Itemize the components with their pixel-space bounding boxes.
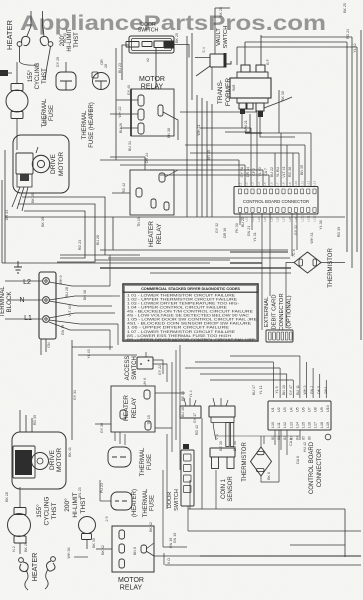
svg-text:U8: U8: [314, 407, 318, 412]
svg-text:BR 35: BR 35: [207, 150, 211, 160]
svg-text:OR 24: OR 24: [145, 153, 149, 163]
svg-text:THERMISTOR: THERMISTOR: [242, 442, 248, 482]
svg-text:CONNECTOR: CONNECTOR: [279, 293, 285, 330]
svg-text:HEATER: HEATER: [30, 553, 39, 582]
svg-text:CYCLING: CYCLING: [35, 62, 41, 89]
svg-text:B4: B4: [295, 436, 299, 440]
svg-text:#2: #2: [146, 58, 150, 62]
svg-text:BLOCK: BLOCK: [6, 291, 13, 313]
svg-text:GN 19: GN 19: [169, 538, 173, 548]
svg-text:YL 31: YL 31: [253, 232, 257, 241]
svg-text:L1: L1: [24, 315, 32, 322]
svg-text:RD 23: RD 23: [78, 240, 82, 250]
svg-text:BK 30: BK 30: [281, 91, 285, 101]
svg-text:U2: U2: [277, 407, 281, 412]
svg-text:L1: L1: [238, 182, 242, 186]
svg-text:SWITCH: SWITCH: [223, 26, 229, 49]
svg-text:B1: B1: [277, 436, 281, 440]
svg-text:BU 26: BU 26: [119, 123, 123, 133]
svg-text:MOTOR: MOTOR: [118, 577, 144, 584]
svg-text:BU 23: BU 23: [118, 63, 122, 73]
svg-text:BU 11: BU 11: [296, 385, 300, 395]
svg-text:L4: L4: [257, 182, 261, 186]
svg-text:HEATER: HEATER: [123, 395, 130, 421]
svg-text:L212: L212: [313, 215, 317, 222]
svg-text:BK 25: BK 25: [343, 3, 347, 13]
svg-text:CA 7: CA 7: [264, 168, 268, 176]
svg-text:YL BU: YL BU: [276, 166, 280, 177]
svg-text:YL 4: YL 4: [189, 390, 193, 397]
svg-text:7C X: 7C X: [292, 248, 296, 257]
svg-text:(HEATER): (HEATER): [132, 489, 138, 517]
svg-text:JRL 23: JRL 23: [78, 487, 82, 498]
svg-text:3W8: 3W8: [232, 85, 236, 92]
svg-text:U4: U4: [289, 407, 293, 412]
svg-text:L12: L12: [307, 180, 311, 185]
svg-text:YL 11: YL 11: [259, 386, 263, 395]
svg-text:TN 15: TN 15: [137, 217, 141, 227]
svg-text:YL 5: YL 5: [275, 386, 279, 393]
svg-text:YL 40: YL 40: [258, 167, 262, 176]
svg-text:GN 2: GN 2: [310, 386, 314, 394]
svg-text:L11: L11: [277, 422, 281, 428]
svg-text:GY 30: GY 30: [100, 423, 104, 433]
svg-text:L3: L3: [251, 182, 255, 186]
svg-text:CA 6: CA 6: [289, 438, 293, 446]
svg-text:FORMER: FORMER: [225, 78, 232, 106]
svg-text:THST: THST: [51, 502, 58, 519]
svg-text:L2: L2: [245, 182, 249, 186]
svg-text:DRIVE: DRIVE: [50, 153, 57, 174]
svg-text:BE 16: BE 16: [181, 391, 185, 401]
svg-text:BK 25: BK 25: [219, 7, 223, 17]
svg-text:L16: L16: [308, 422, 312, 428]
svg-text:BS - UPPER DRYER MOTOR CONTROL: BS - UPPER DRYER MOTOR CONTROL CIRCUIT F…: [127, 338, 256, 342]
svg-text:GN 19: GN 19: [173, 533, 177, 543]
svg-text:THERMISTOR: THERMISTOR: [328, 248, 334, 288]
svg-text:L10: L10: [271, 422, 275, 428]
svg-text:MOTOR: MOTOR: [56, 448, 63, 472]
svg-text:CONTROL BOARD: CONTROL BOARD: [309, 441, 315, 494]
svg-text:U1: U1: [271, 407, 275, 412]
svg-text:WM 21: WM 21: [244, 120, 248, 131]
svg-text:RD 24: RD 24: [346, 29, 350, 39]
svg-text:OR 36: OR 36: [223, 228, 227, 238]
svg-text:GN: GN: [47, 342, 51, 348]
svg-text:RD 42: RD 42: [195, 425, 199, 435]
svg-text:BK 35: BK 35: [41, 217, 45, 227]
svg-text:CYCLING: CYCLING: [44, 497, 51, 526]
svg-text:THST: THST: [42, 68, 48, 84]
svg-text:BK 35: BK 35: [92, 538, 96, 548]
svg-text:BK 28: BK 28: [24, 542, 28, 552]
svg-text:155°: 155°: [35, 504, 43, 518]
svg-text:BK 25: BK 25: [175, 33, 179, 43]
svg-text:GN 21: GN 21: [247, 226, 251, 236]
svg-text:GY 22: GY 22: [158, 365, 162, 375]
svg-text:BN 38: BN 38: [83, 290, 87, 300]
svg-text:BU 31: BU 31: [128, 141, 132, 151]
svg-text:L15: L15: [302, 422, 306, 428]
svg-text:OK 5: OK 5: [317, 386, 321, 394]
svg-text:BK 35: BK 35: [31, 193, 35, 203]
svg-text:CONTROL BOARD CONNECTOR: CONTROL BOARD CONNECTOR: [243, 199, 309, 204]
svg-text:GY 17: GY 17: [193, 413, 197, 423]
svg-text:BK 41: BK 41: [68, 447, 72, 457]
svg-text:U3: U3: [283, 407, 287, 412]
svg-text:FUSE: FUSE: [147, 454, 153, 470]
svg-text:BU 28: BU 28: [65, 287, 69, 297]
svg-text:BN 8: BN 8: [133, 547, 137, 555]
svg-text:TN 15: TN 15: [147, 415, 151, 425]
svg-text:28: 28: [104, 64, 108, 68]
svg-text:L19: L19: [326, 422, 330, 428]
svg-text:L12: L12: [283, 422, 287, 428]
svg-text:L210: L210: [300, 215, 304, 222]
svg-text:U10: U10: [326, 405, 330, 412]
svg-text:DA 8: DA 8: [296, 456, 300, 464]
svg-text:WH 9: WH 9: [59, 276, 63, 285]
svg-text:B F: B F: [266, 58, 270, 64]
svg-text:155°: 155°: [28, 69, 34, 82]
svg-text:L17: L17: [314, 422, 318, 428]
svg-text:SWITCH: SWITCH: [138, 28, 159, 34]
svg-text:RD 42: RD 42: [122, 183, 126, 193]
svg-text:200°: 200°: [60, 33, 66, 46]
svg-text:RD 38: RD 38: [288, 167, 292, 177]
svg-text:L10: L10: [294, 180, 298, 185]
svg-text:GY VA: GY VA: [240, 166, 244, 177]
svg-text:L9: L9: [288, 182, 292, 186]
svg-text:CONNECTOR: CONNECTOR: [317, 448, 323, 487]
svg-text:HI-LIMIT: HI-LIMIT: [67, 28, 73, 52]
svg-text:L11: L11: [300, 181, 304, 186]
svg-text:THERMAL: THERMAL: [140, 447, 146, 476]
svg-text:HEATER: HEATER: [5, 19, 14, 49]
svg-text:UH 6: UH 6: [143, 378, 147, 386]
svg-text:RELAY: RELAY: [156, 223, 163, 244]
svg-text:L8: L8: [282, 182, 286, 186]
svg-text:MOTOR: MOTOR: [58, 152, 65, 176]
svg-text:WH 3: WH 3: [303, 386, 307, 395]
svg-text:L6: L6: [269, 182, 273, 186]
svg-text:SWITCH: SWITCH: [174, 489, 180, 511]
svg-text:WH 21: WH 21: [197, 125, 201, 136]
svg-text:YL 38: YL 38: [319, 220, 323, 229]
svg-text:U7: U7: [308, 407, 312, 412]
svg-text:RELAY: RELAY: [131, 397, 138, 418]
svg-text:N: N: [19, 297, 24, 304]
svg-text:FUSE: FUSE: [49, 105, 55, 121]
svg-text:WH 36: WH 36: [67, 548, 71, 559]
svg-text:RELAY: RELAY: [120, 585, 143, 592]
svg-text:GN 19: GN 19: [61, 325, 65, 335]
svg-text:THERMAL: THERMAL: [82, 110, 88, 139]
svg-text:L5: L5: [263, 182, 267, 186]
svg-text:(OPTIONAL): (OPTIONAL): [287, 295, 293, 328]
svg-text:VAULT: VAULT: [216, 28, 222, 46]
svg-text:N 2: N 2: [12, 546, 16, 552]
svg-text:GY 29: GY 29: [56, 57, 60, 67]
svg-text:L13: L13: [313, 180, 317, 185]
svg-text:BU 28: BU 28: [96, 235, 100, 245]
svg-text:B5: B5: [302, 436, 306, 440]
svg-text:BU 22: BU 22: [270, 167, 274, 177]
svg-text:SENSOR: SENSOR: [228, 476, 234, 502]
svg-text:DR 34: DR 34: [246, 167, 250, 177]
svg-text:GY 31: GY 31: [73, 390, 77, 400]
svg-text:WH 31: WH 31: [310, 233, 314, 244]
svg-text:WH 22: WH 22: [118, 107, 122, 118]
svg-text:OR: OR: [100, 59, 104, 65]
svg-text:BK 42: BK 42: [101, 545, 105, 555]
svg-text:B2: B2: [283, 436, 287, 440]
svg-text:VLT 41: VLT 41: [282, 166, 286, 177]
svg-text:DOOR: DOOR: [167, 492, 173, 509]
svg-text:BU 16: BU 16: [181, 407, 185, 417]
svg-text:BE 30: BE 30: [219, 441, 223, 451]
svg-text:THERMAL: THERMAL: [143, 488, 149, 517]
svg-text:2 9: 2 9: [105, 517, 109, 522]
svg-text:YL 42: YL 42: [353, 43, 357, 52]
svg-text:BK 42: BK 42: [149, 522, 153, 532]
svg-text:BU 28: BU 28: [241, 217, 245, 227]
svg-text:COMMERCIAL STACKED DRYER DIAGN: COMMERCIAL STACKED DRYER DIAGNOSTIC CODE…: [141, 287, 240, 291]
svg-text:U6: U6: [302, 407, 306, 412]
svg-text:DEBIT CARD: DEBIT CARD: [272, 294, 278, 329]
svg-text:6 O: 6 O: [167, 558, 171, 564]
svg-text:U5: U5: [295, 407, 299, 412]
svg-text:RD 35: RD 35: [33, 415, 37, 425]
svg-text:AppliancePartsPros.com: AppliancePartsPros.com: [20, 12, 326, 35]
svg-text:OR 24: OR 24: [5, 210, 9, 220]
svg-text:VLT 40: VLT 40: [68, 305, 72, 316]
svg-text:GY 31: GY 31: [89, 107, 93, 117]
svg-text:RD 39: RD 39: [337, 227, 341, 237]
svg-text:BN 35: BN 35: [300, 165, 304, 175]
svg-text:L18: L18: [320, 422, 324, 428]
svg-text:YL 45: YL 45: [87, 349, 91, 358]
svg-text:FK 30: FK 30: [235, 223, 239, 233]
svg-text:L211: L211: [307, 215, 311, 221]
svg-text:GY 32: GY 32: [294, 225, 298, 235]
svg-text:CF 2: CF 2: [252, 168, 256, 176]
svg-text:L7: L7: [276, 182, 280, 186]
svg-text:L13: L13: [289, 422, 293, 428]
svg-text:200°: 200°: [63, 498, 71, 512]
svg-text:MOTOR: MOTOR: [139, 76, 165, 83]
svg-text:S 4: S 4: [202, 47, 206, 52]
svg-text:FUSE: FUSE: [150, 495, 156, 511]
svg-text:GY 40: GY 40: [127, 85, 131, 95]
svg-text:BN 10: BN 10: [282, 385, 286, 395]
svg-text:HU 42: HU 42: [303, 442, 307, 452]
svg-text:BK 8: BK 8: [267, 472, 271, 480]
svg-text:DRIVE: DRIVE: [49, 449, 56, 470]
svg-text:GY 32: GY 32: [215, 223, 219, 233]
svg-text:BU 17: BU 17: [252, 385, 256, 395]
svg-text:B0: B0: [271, 436, 275, 440]
svg-text:L14: L14: [295, 422, 299, 428]
svg-text:DK4: DK4: [324, 387, 328, 394]
svg-text:GY 47: GY 47: [289, 385, 293, 395]
svg-text:B6: B6: [308, 436, 312, 440]
svg-text:BK 28: BK 28: [5, 492, 9, 502]
svg-text:ACCESS: ACCESS: [125, 356, 131, 381]
svg-text:PU 23: PU 23: [100, 483, 104, 493]
svg-text:TRANS-: TRANS-: [217, 80, 224, 104]
svg-text:BN 38: BN 38: [167, 128, 171, 138]
svg-text:EXTERNAL: EXTERNAL: [264, 296, 270, 327]
svg-text:THERMAL: THERMAL: [42, 98, 48, 127]
svg-text:L2: L2: [23, 279, 31, 286]
svg-text:COIN 1: COIN 1: [221, 478, 227, 499]
svg-text:V 4: V 4: [215, 434, 219, 439]
svg-text:U9: U9: [320, 407, 324, 412]
svg-text:THST: THST: [74, 32, 80, 48]
svg-text:HEATER: HEATER: [148, 221, 155, 247]
